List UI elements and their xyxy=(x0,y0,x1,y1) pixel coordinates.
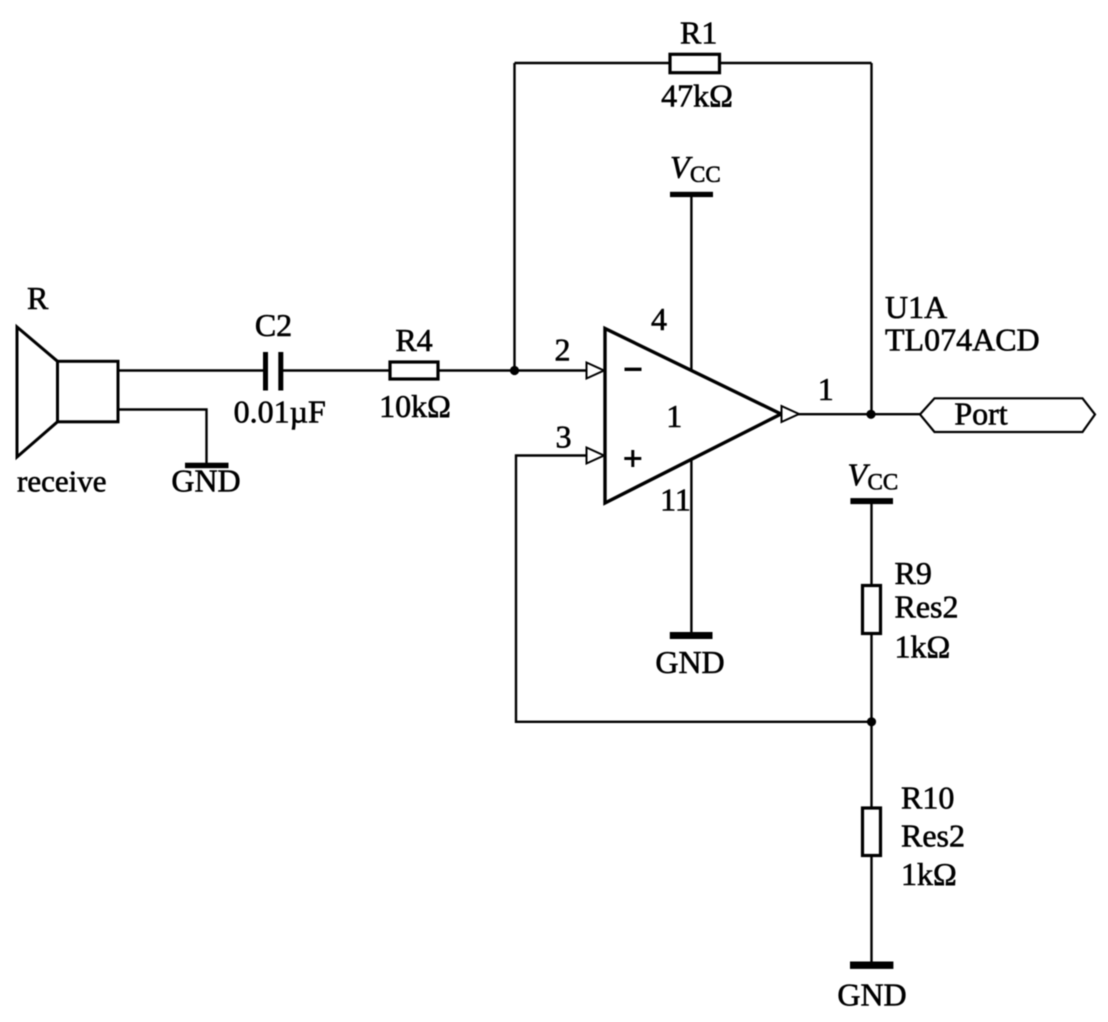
svg-text:10kΩ: 10kΩ xyxy=(379,388,451,424)
svg-text:TL074ACD: TL074ACD xyxy=(885,322,1040,358)
wire feedback top left to R1 xyxy=(515,62,671,64)
node divider junction xyxy=(867,717,876,726)
wire divider node to R10 xyxy=(870,722,872,808)
svg-text:Res2: Res2 xyxy=(901,818,965,854)
svg-text:R10: R10 xyxy=(901,780,954,816)
port connector Port xyxy=(920,398,1095,432)
svg-text:GND: GND xyxy=(837,977,906,1013)
svg-text:U1A: U1A xyxy=(885,289,947,325)
ground GND (bottom) xyxy=(850,962,893,969)
svg-text:R1: R1 xyxy=(680,15,717,51)
wire VCC to R9 xyxy=(870,503,872,586)
wire R10 to ground xyxy=(870,856,872,962)
svg-text:R4: R4 xyxy=(395,322,432,358)
svg-text:1kΩ: 1kΩ xyxy=(895,629,951,665)
svg-text:Port: Port xyxy=(954,396,1007,432)
resistor R10 xyxy=(863,808,881,856)
wire divider node to pin 3 xyxy=(516,456,872,722)
wire R1 to feedback right xyxy=(720,62,872,64)
minus sign xyxy=(625,368,642,371)
wire inverting node up to feedback xyxy=(513,63,515,371)
wire R4 to op-amp pin 2 xyxy=(438,369,588,371)
svg-text:receive: receive xyxy=(17,464,106,499)
svg-text:GND: GND xyxy=(171,463,240,499)
capacitor C2 xyxy=(263,352,283,391)
node inverting input junction xyxy=(510,366,519,375)
ground GND (op-amp) xyxy=(670,632,713,639)
svg-text:CC: CC xyxy=(868,470,899,495)
op-amp U1A xyxy=(605,329,781,504)
svg-text:0.01µF: 0.01µF xyxy=(234,394,326,430)
wire output to Port xyxy=(797,413,920,415)
svg-text:1: 1 xyxy=(818,371,834,407)
svg-text:2: 2 xyxy=(555,332,571,368)
pin 3 input arrow xyxy=(587,448,605,464)
svg-text:R9: R9 xyxy=(895,555,932,591)
svg-text:CC: CC xyxy=(690,162,721,187)
output arrow xyxy=(782,406,800,422)
svg-text:1: 1 xyxy=(666,398,682,434)
svg-text:C2: C2 xyxy=(255,307,292,343)
wire VCC to pin 4 xyxy=(690,196,692,420)
wire R9 to divider node xyxy=(870,634,872,722)
wire C2 to R4 xyxy=(283,369,390,371)
resistor R4 xyxy=(390,362,438,379)
wire feedback right down to output xyxy=(870,63,872,415)
pin 2 input arrow xyxy=(587,363,605,379)
plus sign xyxy=(624,450,641,467)
speaker R xyxy=(17,327,118,457)
svg-text:GND: GND xyxy=(655,644,724,680)
svg-text:4: 4 xyxy=(651,301,667,337)
power VCC (divider) xyxy=(848,457,899,505)
wire pin 11 to ground xyxy=(690,410,692,633)
ground GND (speaker) xyxy=(185,463,229,469)
svg-text:Res2: Res2 xyxy=(895,589,959,625)
resistor R9 xyxy=(863,586,881,634)
svg-text:47kΩ: 47kΩ xyxy=(661,78,733,114)
node output junction xyxy=(866,410,875,419)
svg-text:11: 11 xyxy=(660,482,691,518)
resistor R1 xyxy=(670,54,720,72)
svg-text:R: R xyxy=(27,280,49,316)
svg-text:3: 3 xyxy=(556,419,572,455)
power VCC (op-amp) xyxy=(670,149,721,197)
svg-text:1kΩ: 1kΩ xyxy=(901,856,957,892)
wire speaker top to C2 xyxy=(118,369,264,371)
wire speaker bottom to ground xyxy=(118,410,207,464)
